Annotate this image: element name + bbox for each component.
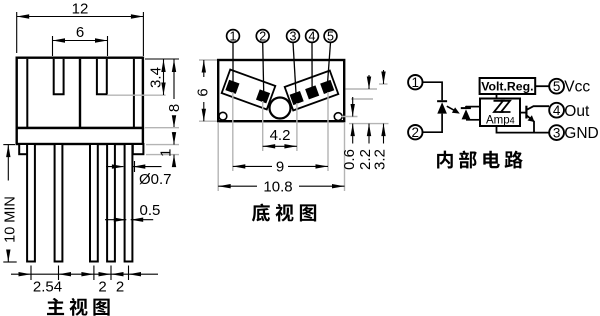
svg-text:4: 4 <box>309 30 316 44</box>
pin 1 front view <box>27 144 35 262</box>
volt reg box <box>480 78 536 94</box>
emission arrow <box>447 106 456 111</box>
dim 6 extension lines <box>52 36 54 56</box>
corner hole right <box>334 113 342 121</box>
svg-text:5: 5 <box>553 79 561 94</box>
grey extension strip top <box>145 127 179 129</box>
photodiode cathode bar <box>461 107 471 109</box>
dim 6 line <box>53 40 108 42</box>
svg-text:0.6: 0.6 <box>341 149 358 170</box>
dim 4.2 <box>263 145 297 147</box>
pin 1 circle <box>408 75 422 90</box>
svg-text:4: 4 <box>553 103 561 118</box>
dim 12 extension lines <box>16 12 18 53</box>
pin 3 circle <box>549 125 564 140</box>
title front view 主视图 <box>47 298 110 316</box>
emitter slot (left slanted) <box>222 70 276 110</box>
svg-text:2: 2 <box>116 279 124 296</box>
pin 5 front view <box>125 144 133 262</box>
pin 4 circle <box>549 103 564 118</box>
bottom view body rect <box>218 60 344 121</box>
svg-text:5: 5 <box>327 30 334 44</box>
dim 9 <box>233 165 272 167</box>
svg-text:3.2: 3.2 <box>371 149 388 170</box>
inner wall left <box>26 59 28 127</box>
svg-text:Ø0.7: Ø0.7 <box>139 171 172 188</box>
dim dia0.7 <box>106 166 123 168</box>
dim 12 line <box>17 16 144 18</box>
wire LED to pin2 <box>423 114 442 133</box>
transistor collector <box>526 106 549 110</box>
pitch dim line <box>11 273 158 275</box>
dim 2.2 <box>368 75 370 89</box>
grey leader slot bottom <box>107 94 166 96</box>
amp ground drop <box>497 126 550 133</box>
amp box <box>480 99 520 127</box>
inner wall right <box>133 59 135 127</box>
transistor base bar <box>525 106 527 119</box>
svg-text:3: 3 <box>290 30 297 44</box>
photodiode triangle <box>462 109 471 119</box>
dim 10MIN ticks <box>3 144 15 146</box>
pin number circle 3 bottom view <box>287 30 300 44</box>
leader line 1 <box>232 42 234 86</box>
svg-text:2: 2 <box>98 279 106 296</box>
wire voltreg to amp <box>496 94 498 99</box>
dim 10.8 <box>218 185 257 187</box>
dim 6 bottom view ext lines <box>199 59 217 61</box>
svg-text:Volt.Reg.: Volt.Reg. <box>481 80 533 94</box>
corner hole left <box>219 112 227 120</box>
title bottom view 底视图 <box>252 204 316 222</box>
photodiode wires to amp <box>466 106 481 108</box>
leader line 3 <box>293 42 296 98</box>
dim 6 bottom view <box>203 60 205 77</box>
pin number circle 4 bottom view <box>306 30 319 44</box>
svg-text:4.2: 4.2 <box>270 127 291 144</box>
slot left <box>54 59 64 94</box>
dim 0.5 <box>105 219 126 221</box>
dim 10MIN line <box>7 145 9 181</box>
svg-text:2: 2 <box>259 30 266 44</box>
svg-text:9: 9 <box>276 159 284 176</box>
LED triangle <box>437 102 447 113</box>
svg-text:1: 1 <box>412 75 420 90</box>
pin number circle 5 bottom view <box>324 30 337 44</box>
pin 3 front view <box>90 144 98 262</box>
leader line 5 <box>327 42 330 87</box>
svg-text:6: 6 <box>76 24 84 41</box>
svg-text:10.8: 10.8 <box>263 178 292 195</box>
center wall <box>79 59 81 127</box>
title internal circuit 内部电路 <box>437 150 523 168</box>
svg-text:Amp4: Amp4 <box>486 115 515 127</box>
transistor base wire <box>520 112 526 114</box>
base strip <box>17 128 143 144</box>
svg-text:10 MIN: 10 MIN <box>2 196 18 243</box>
svg-text:12: 12 <box>72 1 89 18</box>
dim 3.2 <box>383 70 385 84</box>
dim 3.4 <box>163 60 165 96</box>
wire voltreg to pin5 <box>535 85 549 87</box>
pin 2 circle <box>408 125 422 140</box>
wire pin1 to LED <box>423 82 442 100</box>
svg-text:6: 6 <box>194 88 211 96</box>
dim 1 <box>173 132 175 145</box>
svg-text:2: 2 <box>412 125 420 140</box>
pin 2 front view <box>55 144 63 262</box>
pin 4 front view <box>107 144 115 262</box>
svg-text:1: 1 <box>158 149 175 157</box>
svg-text:1: 1 <box>230 30 237 44</box>
grey extension tab bottom <box>146 154 179 156</box>
dim 8 <box>173 60 175 100</box>
lens circle <box>270 98 291 119</box>
pin number circle 1 bottom view <box>227 30 240 44</box>
grey ext pads down <box>232 92 234 171</box>
left tab <box>19 144 27 154</box>
detector slot (right slanted) <box>285 71 339 111</box>
grey extension strip bottom <box>146 144 179 146</box>
pin number circle 2 bottom view <box>256 30 269 44</box>
front view body outline <box>17 58 143 128</box>
dim 0.6 <box>352 97 354 117</box>
transistor emitter <box>526 115 534 132</box>
svg-text:2.54: 2.54 <box>33 279 62 296</box>
pin 5 circle <box>549 79 564 94</box>
svg-text:3: 3 <box>553 125 561 140</box>
leader line 2 <box>263 42 264 96</box>
svg-text:Vcc: Vcc <box>564 79 590 96</box>
leader line 4 <box>311 42 313 93</box>
svg-text:3.4: 3.4 <box>148 67 165 88</box>
slot right <box>97 59 107 94</box>
svg-text:Out: Out <box>564 103 590 120</box>
svg-text:0.5: 0.5 <box>140 202 161 219</box>
grey ext right side <box>346 88 378 90</box>
extension line body top <box>145 58 179 60</box>
LED cathode bar <box>437 100 447 102</box>
svg-text:GND: GND <box>564 125 598 142</box>
svg-text:8: 8 <box>166 104 183 112</box>
right tab <box>133 144 144 154</box>
